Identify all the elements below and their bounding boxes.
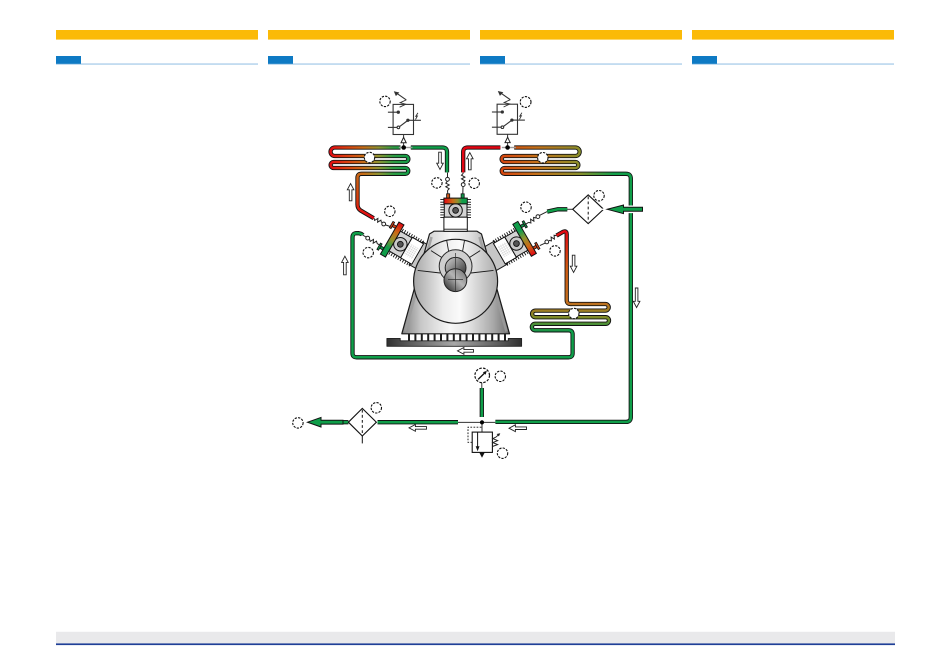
intake filter (right diamond) bbox=[567, 195, 608, 224]
flow arrow left (delivery from down-leg) bbox=[509, 425, 527, 432]
header blue tab column 1 bbox=[56, 56, 81, 64]
callout circle: output port bbox=[293, 418, 303, 428]
pressure switch S1 (left) bbox=[388, 91, 421, 134]
header blue tab column 3 bbox=[480, 56, 505, 64]
callout circle: right pressure switch bbox=[520, 97, 531, 108]
pipe: delivery line junction to output filter (green) bbox=[378, 420, 459, 424]
callout circle: output filter bbox=[371, 403, 381, 413]
left cylinder mounting pad bbox=[409, 242, 435, 272]
pilot line right pressure switch bbox=[507, 134, 509, 147]
cylinder 2nd stage (top, vertical) bbox=[440, 194, 471, 232]
pressure switch S2 (right) bbox=[492, 91, 525, 134]
header blue tab column 4 bbox=[692, 56, 717, 64]
flow arrow left (delivery to output filter) bbox=[409, 425, 427, 432]
check valve CV4 (3rd stage inlet, left green) bbox=[363, 235, 382, 246]
thin line through bottom junction bbox=[458, 421, 495, 423]
crankshaft hub bbox=[439, 250, 472, 292]
pipe: green return loop under compressor to 3rd stage inlet bbox=[353, 233, 573, 357]
callout circle: CV6 bbox=[550, 246, 560, 256]
pipe: stage-3 discharge drop (red, to left cylinder) bbox=[358, 174, 374, 218]
pipe: stage-1 green inlet from intake filter bbox=[547, 209, 567, 211]
flow arrow down (1st stage discharge drop) bbox=[570, 255, 577, 272]
check valve CV5 (1st stage inlet, right green) bbox=[525, 212, 548, 225]
header blue tab column 2 bbox=[268, 56, 293, 64]
pipe: red discharge from 2nd stage cylinder (top center) bbox=[463, 148, 500, 173]
flow arrow left (return loop under compressor) bbox=[458, 348, 474, 355]
compressor crankcase body bbox=[402, 231, 510, 334]
callout circle: left pressure switch bbox=[380, 96, 390, 106]
junction dot left tap bbox=[401, 145, 406, 150]
pressure gauge bbox=[475, 368, 490, 383]
pipe: green inlet to 2nd stage cylinder (top center) bbox=[411, 148, 447, 173]
callout circle: CV3 bbox=[385, 206, 395, 216]
pilot line left pressure switch bbox=[403, 135, 405, 148]
footer blue rule bbox=[56, 643, 895, 645]
pipe: output filter stub (green) bbox=[342, 420, 349, 424]
flow arrow up (3rd stage inlet riser) bbox=[342, 256, 349, 275]
check valve CV6 (1st stage discharge, right red) bbox=[540, 235, 557, 245]
pilot triangle left pressure switch bbox=[401, 137, 406, 142]
output flow arrow (green) bbox=[308, 417, 344, 427]
body edge shading bbox=[405, 237, 507, 332]
header underline column 4 bbox=[692, 63, 894, 64]
pilot triangle right pressure switch bbox=[505, 137, 510, 142]
callout circle: intercooler 1 bbox=[569, 308, 579, 318]
check valve CV2 (2nd stage discharge) bbox=[461, 173, 465, 194]
flow arrow down (2nd stage inlet) bbox=[437, 152, 444, 169]
callout circle: gauge bbox=[495, 371, 505, 381]
cooling fins under body bbox=[409, 334, 505, 345]
right cylinder mounting pad bbox=[481, 241, 507, 271]
header underline column 1 bbox=[56, 63, 258, 64]
callout circle: aftercooler bbox=[538, 153, 548, 163]
gauge stem line bbox=[481, 383, 483, 389]
header yellow bar column 1 bbox=[56, 30, 258, 40]
junction connector at right pressure switch tap bbox=[502, 147, 516, 149]
header underline column 3 bbox=[480, 63, 682, 64]
junction dot delivery line bbox=[480, 420, 484, 424]
flow arrow up (2nd stage discharge) bbox=[467, 153, 474, 170]
check valve CV1 (2nd stage inlet) bbox=[446, 173, 450, 194]
line junction to regulator bbox=[481, 422, 483, 432]
callout circle: intercooler 2 bbox=[364, 152, 374, 162]
callout circle: CV2 bbox=[469, 178, 479, 188]
crankcase front disc bbox=[414, 239, 498, 323]
footer grey band bbox=[56, 632, 895, 644]
pipe: stage-1 discharge drop (red/orange, right) bbox=[557, 231, 572, 304]
intake air arrow (green, crosses delivery pipe) bbox=[607, 205, 642, 214]
junction dot right tap bbox=[505, 145, 510, 150]
pipe: gauge branch (green) bbox=[480, 388, 484, 417]
header yellow bar column 4 bbox=[692, 30, 894, 40]
flow arrow down (delivery down-leg) bbox=[633, 288, 640, 308]
junction connector at left pressure switch tap bbox=[399, 147, 413, 149]
pipe: aftercooler serpentine (top-right) bbox=[502, 148, 626, 174]
cylinder 1st stage (right, tilted) bbox=[490, 219, 541, 270]
callout circle: regulator bbox=[497, 448, 507, 458]
callout circle: intake filter bbox=[594, 191, 604, 201]
pressure regulator bbox=[468, 427, 500, 458]
output filter (bottom diamond) bbox=[348, 408, 376, 443]
header yellow bar column 2 bbox=[268, 30, 470, 40]
pipe: main delivery down-leg (right side green loop) bbox=[495, 174, 630, 422]
header underline column 2 bbox=[268, 63, 470, 64]
header yellow bar column 3 bbox=[480, 30, 682, 40]
callout circle: CV1 bbox=[432, 178, 442, 188]
cylinder 3rd stage (left, tilted) bbox=[376, 219, 427, 270]
callout circle: CV5 bbox=[521, 202, 531, 212]
pipe: intercooler 2 serpentine (top-left) bbox=[331, 148, 409, 174]
base slab bbox=[387, 338, 522, 346]
pipe: intercooler 1 serpentine (right-middle) bbox=[532, 304, 609, 330]
flow arrow up (3rd stage discharge riser) bbox=[347, 184, 354, 201]
check valve CV3 (3rd stage discharge, left red) bbox=[374, 218, 391, 227]
callout circle: CV4 bbox=[363, 247, 373, 257]
